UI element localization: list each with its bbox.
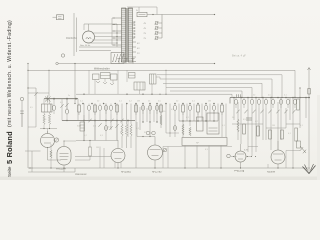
- wire: [75, 140, 118, 160]
- tube V4: [148, 137, 163, 169]
- label: [80, 44, 90, 47]
- svg-text:(mit neuem Wellensch. u. Wider: (mit neuem Wellensch. u. Widerst.-Fading…: [7, 20, 13, 127]
- svg-text:NF(2050): NF(2050): [121, 171, 131, 173]
- marks: [300, 146, 306, 153]
- transformer secondary taps: [133, 22, 136, 38]
- voltage table: [132, 23, 147, 40]
- svg-text:PRE2004: PRE2004: [56, 168, 67, 170]
- tube V5 output: [231, 144, 252, 168]
- wire: [44, 99, 50, 104]
- wire: [127, 7, 157, 15]
- resistors: [243, 124, 260, 136]
- svg-text:RGN1064: RGN1064: [66, 37, 77, 40]
- main bus mid: [78, 103, 230, 105]
- wire: [232, 139, 266, 141]
- wire: [299, 87, 300, 97]
- grid cap V4: [163, 148, 167, 152]
- scan edge bottom: [0, 177, 320, 181]
- svg-text:1M: 1M: [208, 101, 211, 103]
- coupling caps: [146, 131, 155, 135]
- left rail: [27, 63, 28, 168]
- capacitor: [246, 118, 252, 120]
- svg-text:Seite: Seite: [7, 166, 12, 177]
- wire: [62, 13, 64, 54]
- wires: [268, 151, 300, 169]
- value labels: [30, 95, 304, 152]
- switch box F: [129, 73, 136, 79]
- wire: [28, 99, 36, 127]
- mark: [65, 99, 68, 110]
- wire: [52, 99, 55, 114]
- svg-text:P=EL5/3g: P=EL5/3g: [234, 171, 245, 173]
- tube label: [0, 0, 1, 1]
- wire: [63, 12, 122, 14]
- top bus: [27, 70, 295, 99]
- wire: [68, 17, 122, 19]
- wire: [74, 13, 77, 56]
- tube label: [75, 174, 87, 176]
- wire: [65, 99, 68, 121]
- tube V2 rect: [57, 141, 76, 173]
- coupling lines: [157, 75, 283, 98]
- svg-text:30Ω: 30Ω: [77, 126, 81, 128]
- tube label: [56, 168, 67, 170]
- tube V3 AF: [111, 140, 125, 168]
- potentiometer: [53, 138, 59, 142]
- wire: [56, 62, 215, 64]
- svg-text:6,3V: 6,3V: [244, 150, 249, 152]
- voltage selector: [111, 53, 124, 64]
- bus ticks: [237, 94, 241, 97]
- wire: [84, 24, 117, 30]
- grid bus 2: [179, 120, 218, 121]
- coil: [80, 122, 85, 131]
- svg-text:1M: 1M: [272, 125, 275, 127]
- main bus right: [230, 98, 310, 104]
- svg-text:NFL2763: NFL2763: [152, 171, 162, 173]
- switch box C: [111, 74, 118, 80]
- resistor: [48, 112, 50, 129]
- wires: [234, 98, 306, 169]
- fuse: [61, 54, 64, 57]
- antenna jack: [20, 97, 23, 127]
- wires: [106, 121, 128, 141]
- wire: [118, 70, 152, 94]
- cathode resistor: [50, 144, 52, 168]
- wire: [27, 87, 36, 99]
- resistor: [43, 112, 45, 129]
- resistor: [297, 141, 301, 148]
- component row right: [234, 98, 296, 109]
- wire: [28, 70, 50, 97]
- fuse holder: [137, 12, 147, 16]
- value texts: [77, 126, 112, 129]
- tube label: [152, 171, 162, 173]
- fuse bank: [154, 15, 162, 40]
- wires: [170, 104, 226, 138]
- bus junctions: [82, 97, 307, 105]
- wire: [137, 122, 155, 137]
- heater line: [163, 147, 258, 169]
- coil box D: [134, 82, 145, 90]
- input coil: [42, 104, 53, 112]
- resistors: [269, 130, 284, 139]
- wire: [111, 51, 113, 53]
- svg-text:1M: 1M: [96, 147, 99, 149]
- avc line: [76, 94, 232, 98]
- svg-text:2M: 2M: [137, 101, 140, 103]
- wire: [170, 136, 182, 138]
- tube label: [0, 0, 1, 1]
- wire: [84, 115, 104, 168]
- trimmer: [45, 96, 51, 103]
- svg-text:NS5KW: NS5KW: [267, 171, 276, 173]
- value label: [66, 37, 77, 40]
- wires: [78, 99, 131, 148]
- tube label: [234, 171, 245, 173]
- resistors: [121, 124, 132, 136]
- switch box A: [93, 74, 100, 80]
- wire: [89, 70, 113, 94]
- wires: [136, 104, 166, 169]
- junction: [116, 24, 117, 47]
- left bus: [44, 98, 78, 100]
- scan edge right: [317, 95, 320, 180]
- wire: [79, 47, 122, 51]
- wire: [28, 168, 75, 172]
- output transformer can: [207, 113, 219, 134]
- svg-text:Bei ca. 4 µF: Bei ca. 4 µF: [232, 54, 246, 58]
- resistor: [295, 99, 300, 141]
- grid resistor: [89, 140, 92, 160]
- heater taps: [133, 42, 137, 62]
- wire: [89, 33, 122, 43]
- marks: [98, 123, 118, 130]
- pilot lamps: [117, 59, 134, 64]
- value texts: [136, 128, 147, 134]
- wire: [232, 124, 300, 128]
- resistor: [160, 115, 162, 125]
- mark: [166, 126, 179, 134]
- ground: [303, 164, 316, 174]
- wire: [78, 44, 80, 51]
- title text Seite 5 Roland: [5, 20, 14, 177]
- resistors: [182, 124, 191, 136]
- tube label: [121, 171, 131, 173]
- label: [94, 68, 110, 71]
- wire: [40, 128, 57, 134]
- tube label: [267, 171, 276, 173]
- wire: [75, 99, 77, 127]
- mains plug: [53, 15, 64, 20]
- label: [136, 10, 138, 12]
- wire: [117, 84, 150, 86]
- choke can: [197, 117, 204, 131]
- transformer primary taps: [112, 17, 122, 45]
- note text: [232, 54, 246, 58]
- cap ticks: [20, 111, 24, 127]
- wire: [147, 14, 215, 15]
- rectifier tube RGN1064: [83, 24, 95, 43]
- tube V1 RF: [41, 131, 62, 160]
- wire: [60, 99, 63, 121]
- svg-text:Wellenschalter: Wellenschalter: [94, 68, 110, 71]
- heater pins V3: [115, 162, 121, 168]
- component row: [78, 104, 224, 116]
- coil box E: [150, 74, 157, 84]
- IF box: [182, 138, 227, 146]
- switch box B: [101, 73, 111, 79]
- wire: [75, 127, 77, 141]
- wires: [185, 146, 221, 169]
- wire: [25, 151, 41, 172]
- wire: [64, 16, 75, 18]
- svg-text:5 Roland: 5 Roland: [5, 131, 14, 164]
- speaker lead: [308, 68, 311, 174]
- grid cap: [227, 154, 256, 158]
- svg-text:Netz 50 Hz: Netz 50 Hz: [80, 44, 90, 47]
- mains drop: [74, 64, 75, 105]
- wire: [156, 70, 167, 94]
- voltage labels: [137, 43, 140, 55]
- switch wipers: [96, 81, 114, 85]
- grid bus: [62, 119, 135, 123]
- svg-text:PRE2000W: PRE2000W: [75, 174, 87, 176]
- resistor: [237, 119, 239, 132]
- heater wires: [244, 140, 256, 156]
- wire: [62, 57, 64, 63]
- svg-text:2x: 2x: [68, 95, 70, 97]
- tube V6 output: [271, 141, 285, 168]
- ground bus: [28, 167, 310, 168]
- marks: [236, 110, 295, 114]
- transformer T1: [122, 8, 133, 62]
